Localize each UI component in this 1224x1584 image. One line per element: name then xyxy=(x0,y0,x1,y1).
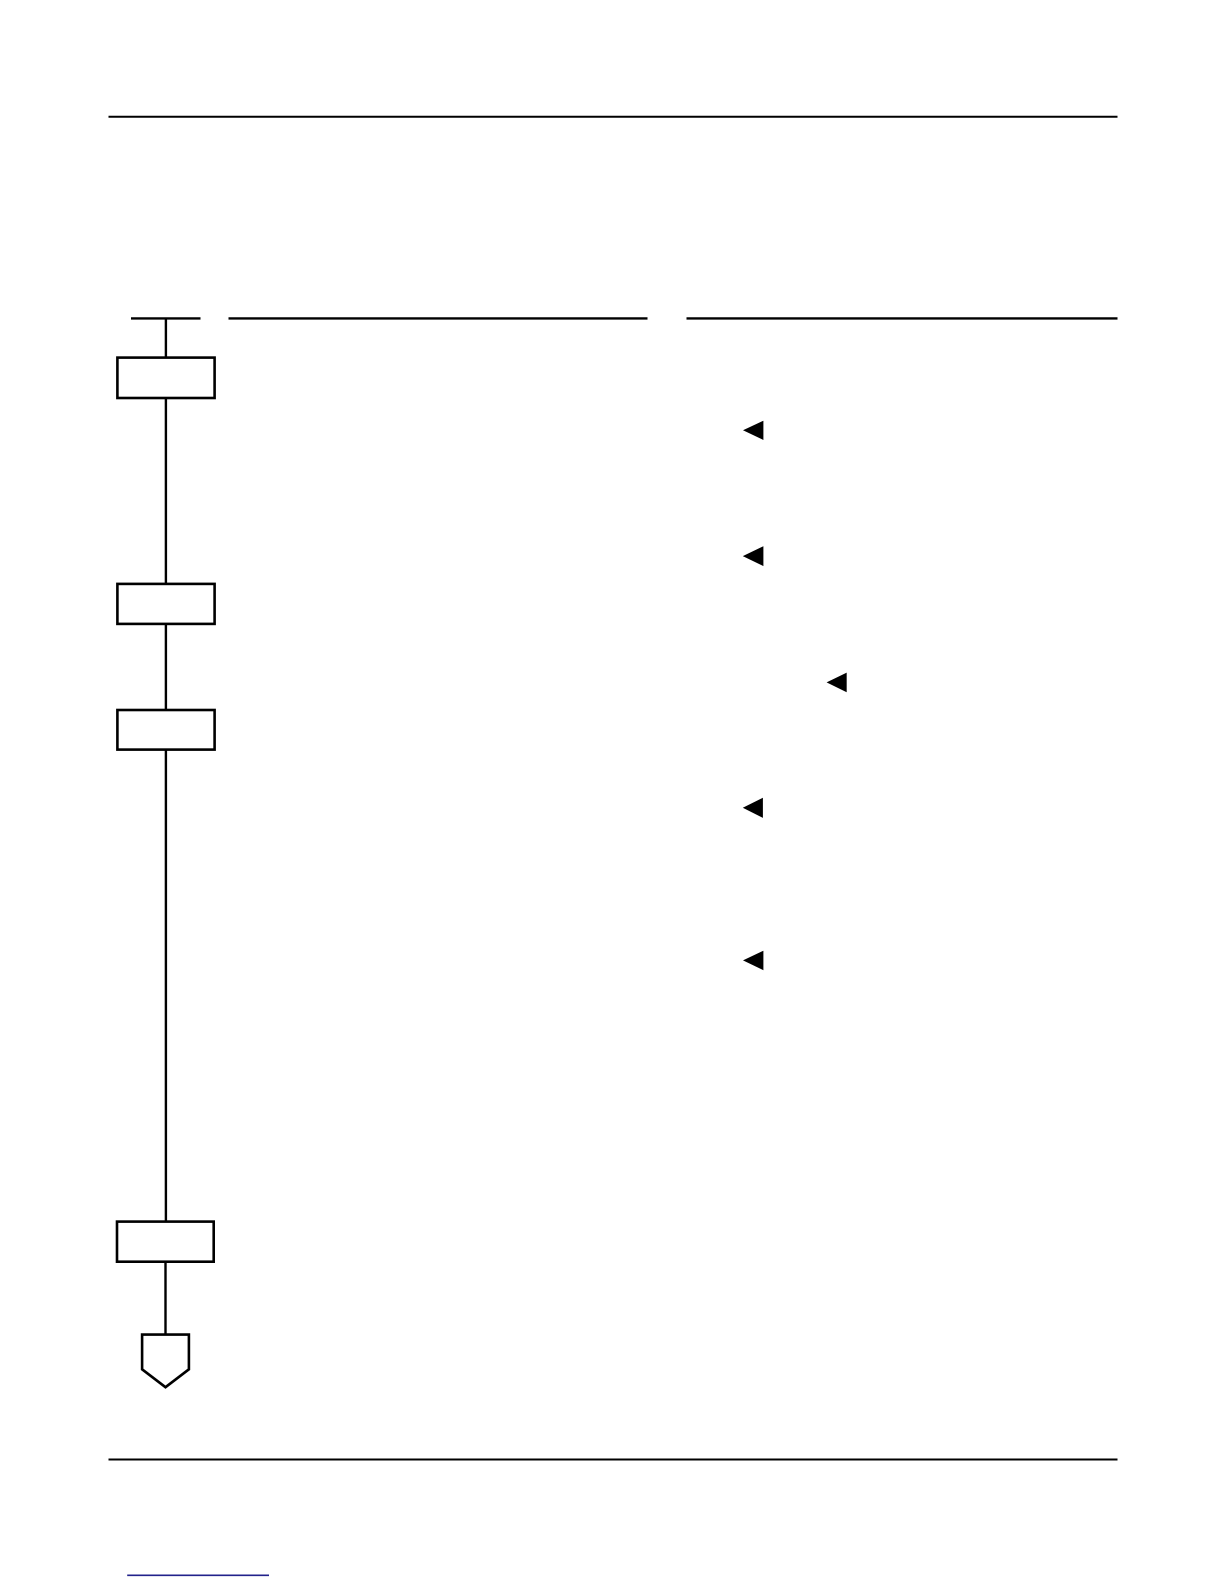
pointer arrowhead 3 xyxy=(827,673,847,693)
column 2 header underline xyxy=(687,317,1118,319)
wire from top bar to step box 1 xyxy=(165,318,167,357)
step box 2 xyxy=(117,584,214,624)
column 1 header underline xyxy=(229,317,648,319)
step box 4 xyxy=(117,1222,214,1262)
header rule xyxy=(109,116,1118,118)
pointer arrowhead 4 xyxy=(743,798,763,818)
pointer arrowhead 5 xyxy=(743,951,763,971)
flowchart column top bar xyxy=(131,317,201,319)
terminator pentagon xyxy=(142,1335,189,1388)
footer link underline xyxy=(127,1574,269,1576)
wire from step box 3 to step box 4 xyxy=(165,750,167,1222)
step box 1 xyxy=(117,358,214,398)
wire from step box 4 to terminator xyxy=(164,1262,166,1335)
pointer arrowhead 1 xyxy=(743,421,763,440)
wire from step box 2 to step box 3 xyxy=(165,624,167,710)
pointer arrowhead 2 xyxy=(743,546,764,566)
wire from step box 1 to step box 2 xyxy=(165,398,167,584)
footer rule xyxy=(109,1459,1118,1461)
step box 3 xyxy=(117,710,214,750)
